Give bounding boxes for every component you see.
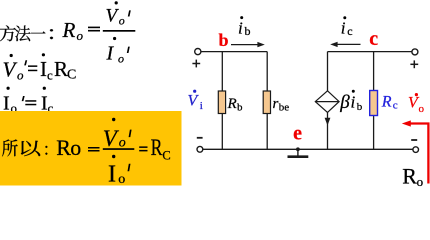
resistor r_be (box) bbox=[263, 91, 270, 114]
current label i_b with dot bbox=[238, 16, 251, 38]
polarity: + right bbox=[410, 60, 418, 68]
svg-text:be: be bbox=[279, 102, 290, 114]
svg-text:c: c bbox=[47, 67, 53, 82]
wire: R_b branch top bbox=[221, 52, 223, 91]
svg-text:e: e bbox=[293, 122, 302, 144]
polarity: + left bbox=[192, 60, 200, 68]
dot over I (denominator) bbox=[113, 37, 116, 40]
svg-text:c: c bbox=[393, 100, 398, 112]
ground at node e bbox=[288, 147, 309, 156]
resistor R_C (box, blue outline) bbox=[370, 91, 378, 116]
current direction arrow below source bbox=[325, 118, 331, 126]
svg-text:b: b bbox=[237, 102, 243, 114]
svg-text:R: R bbox=[151, 135, 163, 160]
terminal: output top bbox=[412, 49, 418, 55]
svg-text:R: R bbox=[56, 135, 71, 160]
dependent current source beta*i_b (diamond) bbox=[315, 91, 339, 113]
svg-text:β: β bbox=[339, 92, 350, 113]
svg-text:I: I bbox=[108, 161, 116, 187]
svg-text:R: R bbox=[381, 94, 392, 111]
svg-text:o: o bbox=[77, 28, 84, 43]
arrow for i_b (points right) bbox=[231, 42, 265, 47]
polarity: - right bbox=[411, 139, 417, 141]
svg-text:c: c bbox=[347, 24, 352, 38]
terminal: input top (open circle) bbox=[195, 49, 201, 55]
svg-text:i: i bbox=[238, 18, 243, 37]
wire: current source branch top bbox=[327, 52, 329, 92]
svg-text:b: b bbox=[219, 30, 229, 50]
current label i_c with dot bbox=[341, 16, 353, 38]
label: Chinese 方法一： (Method 1:) bbox=[0, 25, 53, 41]
svg-text:o: o bbox=[70, 135, 81, 160]
svg-text:R: R bbox=[62, 18, 76, 42]
svg-text:C: C bbox=[67, 68, 76, 83]
wire: R_C branch bottom bbox=[373, 116, 375, 150]
svg-text:V: V bbox=[3, 58, 18, 82]
svg-text:r: r bbox=[273, 96, 279, 112]
svg-text:o: o bbox=[119, 14, 125, 28]
wire: top-right horizontal (c node wire) bbox=[328, 51, 412, 53]
svg-text:o: o bbox=[417, 174, 424, 189]
svg-text:o: o bbox=[118, 172, 125, 187]
svg-text:R: R bbox=[54, 57, 68, 81]
svg-text:I: I bbox=[40, 57, 47, 81]
formula in box: Ro = Vo'/Io' = RC bbox=[56, 118, 170, 188]
resistor R_b (box) bbox=[218, 91, 225, 114]
formula line 3: Io' = Ic bbox=[3, 87, 54, 116]
wire: current source branch bottom bbox=[327, 112, 329, 149]
output label V_o (red, with dot) bbox=[408, 93, 425, 115]
svg-text:C: C bbox=[162, 148, 170, 162]
wire: top-left horizontal (b node wire) bbox=[201, 51, 267, 53]
yellow highlight box bbox=[0, 111, 182, 186]
formula line 1: Ro = Vo'/Io' bbox=[62, 1, 136, 65]
svg-text:o: o bbox=[17, 68, 24, 83]
svg-text:o: o bbox=[118, 51, 124, 65]
formula line 2: Vo' = Ic RC bbox=[3, 53, 77, 82]
svg-text:R: R bbox=[227, 96, 237, 112]
svg-text:b: b bbox=[245, 24, 251, 38]
terminal: output bottom bbox=[413, 147, 419, 153]
svg-text:c: c bbox=[369, 28, 378, 50]
arrow for i_c (points left) bbox=[330, 42, 360, 47]
svg-text:i: i bbox=[200, 100, 203, 112]
wire: R_b branch bottom bbox=[221, 114, 223, 150]
svg-text:i: i bbox=[351, 93, 356, 112]
polarity: - left bbox=[197, 137, 203, 139]
wire: R_C branch top bbox=[373, 52, 375, 91]
fraction bar 1 bbox=[103, 30, 136, 32]
svg-text:o: o bbox=[419, 103, 425, 115]
terminal: input bottom bbox=[197, 146, 203, 152]
label: Chinese 所以： (Therefore:) bbox=[2, 139, 47, 156]
svg-text:i: i bbox=[341, 19, 346, 38]
wire: left corner down to r_be bbox=[266, 52, 268, 91]
svg-text:R: R bbox=[402, 163, 417, 188]
svg-text:I: I bbox=[106, 43, 115, 65]
svg-text:b: b bbox=[357, 101, 363, 113]
wire: r_be branch bottom bbox=[266, 114, 268, 150]
R_o measurement arrow (red) bbox=[409, 124, 428, 184]
wire: bottom rail bbox=[202, 148, 413, 150]
source label V_i (blue, with dot) bbox=[188, 90, 203, 112]
dot over V (numerator) bbox=[115, 1, 118, 4]
